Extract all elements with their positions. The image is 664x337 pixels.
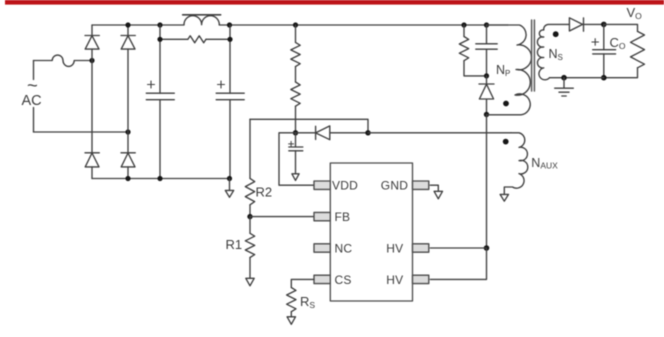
ground arrow Rs [287,317,295,325]
wire between startup resistors [295,67,297,82]
capacitor C1 bulk [146,81,174,179]
node dot damp right [227,37,232,42]
wire R1 bottom stub [249,258,251,279]
wire AC loop bottom [34,131,129,133]
pin CS [314,275,330,283]
resistor R1 [245,233,254,257]
node dot output diode [601,22,607,28]
wire output bottom [550,77,604,79]
node dot top rail x128 [125,22,130,27]
pin HV upper [413,244,429,252]
wire bottom rail [92,178,230,180]
pin NC [314,244,330,252]
diode D clamp [479,76,494,115]
wire filter vertical x160 [159,25,161,93]
pin FB [314,212,330,220]
svg-text:~: ~ [27,75,38,96]
pin HV lower [413,275,429,283]
node dot damp left [157,37,162,42]
transformer core [532,20,535,91]
node dot clamp RC [484,73,489,78]
wire FB [250,216,314,218]
ground arrow C vdd [292,174,299,181]
svg-text:VDD: VDD [332,179,358,193]
node dot bottom rail x229.5 [227,176,232,181]
capacitor C vdd [289,133,303,174]
capacitor Co [592,24,616,77]
svg-text:NP: NP [496,63,510,78]
ground arrow R1 [246,278,254,286]
svg-text:NS: NS [549,47,563,62]
wire aux feed long [368,132,511,134]
wire VDD feed to IC [279,133,314,185]
node AC top junction [89,58,94,63]
resistor R2 [245,178,254,204]
node dot HV [484,245,490,251]
wire filter vertical x230 [229,25,231,93]
wire R2 bottom [249,205,251,217]
polarity dot Naux [503,139,509,145]
node dot primary bottom [484,112,489,117]
inductor L1 with core bar [184,16,219,25]
svg-text:RS: RS [300,294,315,310]
wire startup chain top [295,25,297,42]
svg-text:CO: CO [610,35,626,51]
node dot R2 tap [365,130,370,135]
node dot bottom rail x128 [125,176,130,181]
polarity dot Np [503,101,509,107]
svg-text:GND: GND [381,179,408,193]
svg-text:VO: VO [627,5,643,21]
wire R2 top vertical [249,119,251,178]
transformer secondary Ns winding [537,24,569,79]
svg-text:NC: NC [335,242,353,256]
wire output top [604,24,638,31]
wire bridge right rail [127,25,129,179]
capacitor C clamp [476,25,497,76]
ground earth secondary [555,78,574,96]
node dot top rail x464 [461,22,466,27]
AC source label [22,75,42,110]
wire output bottom right [604,68,638,78]
node dot bottom rail x160 [157,176,162,181]
resistor Rstart1 [291,42,300,66]
node dot top rail x229.5 [227,22,232,27]
resistor R load [631,31,645,67]
ground arrow bottom rail [225,179,233,198]
wire bridge left rail [91,25,93,179]
svg-text:FB: FB [335,210,351,224]
wire drain vertical [486,115,488,249]
resistor Rs [287,288,296,312]
diode D4 bridge lower-right [121,153,135,167]
wire GND pin [430,185,438,191]
pin VDD [314,181,330,189]
svg-text:R2: R2 [256,184,273,199]
ground arrow Naux [500,194,508,201]
node dot secondary ground [561,75,567,81]
node VDD dot [293,130,298,135]
polarity dot Ns [553,31,559,37]
resistor R clamp [459,25,486,76]
resistor R damping [188,36,206,43]
svg-text:HV: HV [386,242,403,256]
wire R2 tap upper [250,119,368,133]
fuse F1 on AC line [34,55,93,66]
diode D1 bridge upper-left [85,36,99,50]
resistor Rstart2 [291,82,300,106]
svg-text:HV: HV [386,273,403,287]
node FB divider dot [247,214,252,219]
diode D output [569,18,603,31]
ground arrow GND pin [434,191,442,199]
node AC bottom junction [125,129,130,134]
header bar [5,0,664,5]
pin GND [413,181,429,189]
wire damping branch y39.3 [160,38,230,40]
transformer auxiliary Naux winding [504,133,527,195]
diode D2 bridge upper-right [121,36,135,50]
node dot Co bottom [601,75,607,81]
wire top rail right [219,24,508,26]
svg-text:NAUX: NAUX [531,156,558,171]
svg-text:CS: CS [335,273,352,287]
diode D vdd [296,126,369,140]
wire startup chain bottom [295,106,297,133]
IC U1 body [330,163,412,301]
wire AC loop left bottom [33,108,35,133]
wire HV pin2 [430,248,486,279]
transformer primary Np winding [487,25,532,115]
node dot top rail x486.5 [484,22,489,27]
svg-text:R1: R1 [226,237,243,252]
wire Rs bottom stub [290,312,292,317]
wire R1 top [249,217,251,234]
wire AC loop left top [33,61,35,80]
diode D3 bridge lower-left [85,153,99,167]
capacitor C2 bulk [216,81,244,179]
node dot top rail x160 [157,22,162,27]
node dot top rail x295.5 [293,22,298,27]
wire HV pin1 [430,247,486,249]
wire CS to Rs [291,279,314,287]
wire top rail left [92,24,184,26]
